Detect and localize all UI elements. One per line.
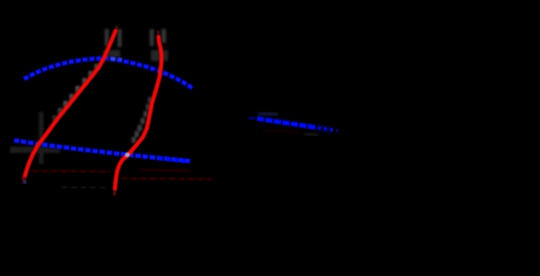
faint grey dashed guide halo below line A [62,187,108,188]
separated end dashes of blue segment [318,128,335,131]
grey halo of black arrowhead atop curve S1' [103,29,122,61]
faint haze above blue segment start [258,113,278,115]
grey halo staircase of black supply curve S2 [132,97,153,143]
faint grey wisp below right end of dashed blue segment [304,134,318,136]
blue dashed segment (middle right) [257,119,316,128]
faint dark blue dot below S1' tail [23,180,27,184]
dark fade at top of S1' [116,26,117,30]
red supply curve S1' (left) [24,30,116,179]
dark fade at bottom of S2' [113,190,117,196]
faint dark red smear near blue segment tail [262,130,300,133]
blue demand arc D1 (dashed, top-left) [24,58,193,88]
grey halo cross of black dashed guides at equilibrium 1 [10,112,60,164]
dark red dashed horizontal line A (left) [32,171,110,173]
blue demand line D2 (dashed, lower-left) [14,140,190,161]
dark red dashed horizontal line B (right) [121,178,212,180]
faint dark red smear above line B [140,170,190,172]
grey halo of black arrowhead atop curve S2' [150,29,168,61]
faint lead-in dash of blue segment [249,116,255,120]
dark glow of blue demand arc D1 [24,58,193,88]
faint trailing dash of blue segment [336,129,341,132]
dark fade at bottom of S1' [22,177,26,184]
red supply curve S2' (right) [115,37,162,191]
heavier separated dashes at right end of D2 [159,158,190,161]
dark glow of blue demand line D2 [14,140,190,161]
bright equilibrium point marker [125,153,129,157]
dark glow of red supply curve S1' [24,30,116,179]
lighter arc dashes where grey halo overlaps [111,57,115,61]
grey halo staircase of black supply curve S1 [53,64,100,123]
dark glow of red supply curve S2' [115,37,162,191]
dark glow of blue dashed segment [257,119,333,131]
dark fade at top of S2' [157,31,160,36]
